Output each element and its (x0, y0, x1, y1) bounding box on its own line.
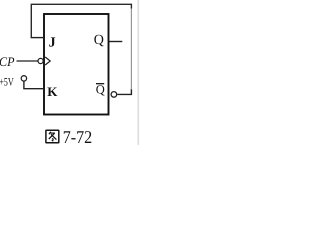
svg-text:+5V: +5V (0, 76, 14, 88)
flip-flop box U1 (44, 14, 109, 115)
wire: +5V terminal to K input (24, 81, 44, 88)
wire: feedback top + left vertical (31, 4, 131, 37)
wire: feedback right vertical (faint) (130, 8, 132, 90)
svg-text:7-72: 7-72 (63, 127, 92, 145)
Q-bar overline (96, 83, 104, 85)
svg-text:Q: Q (96, 83, 105, 97)
wire: CP input lead (17, 60, 39, 62)
Q-bar output inversion bubble (111, 92, 117, 98)
wire: Q output stub (109, 41, 122, 43)
wire: Q-bar feedback lead (117, 89, 131, 94)
clock edge triangle (45, 57, 50, 65)
svg-text:J: J (49, 36, 56, 51)
svg-text:CP: CP (0, 54, 15, 69)
wire: J input lead (31, 37, 44, 39)
+5V open terminal circle (21, 76, 26, 81)
page edge shading (138, 0, 140, 145)
svg-text:Q: Q (94, 33, 104, 48)
caption glyph 图 (46, 130, 59, 143)
svg-text:K: K (47, 84, 58, 99)
CP inversion bubble (38, 58, 43, 63)
